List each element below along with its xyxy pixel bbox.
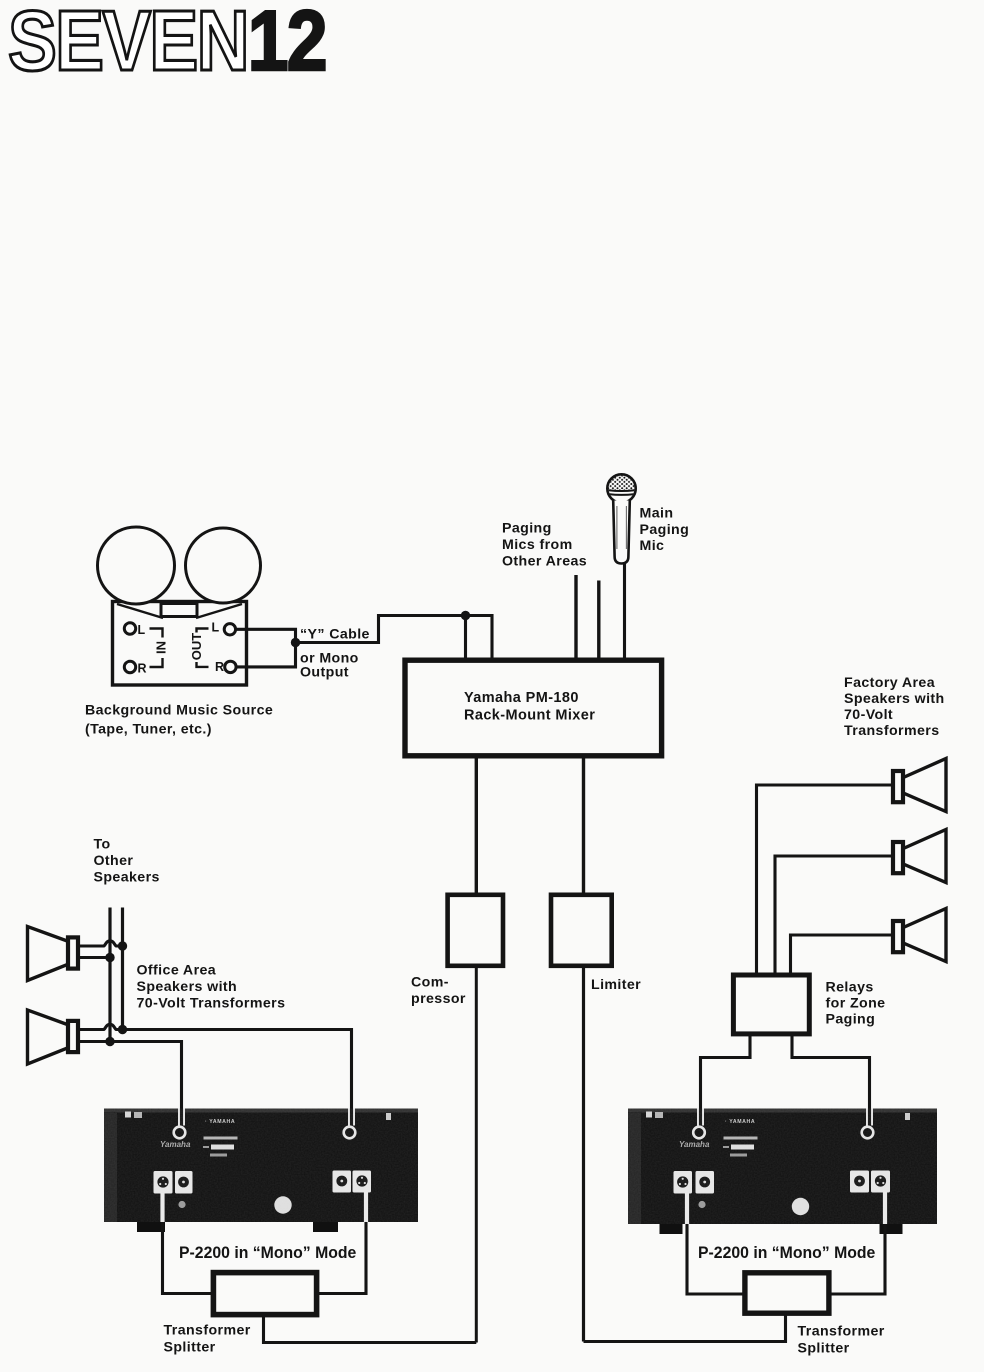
svg-text:P-2200 in “Mono” Mode: P-2200 in “Mono” Mode: [698, 1244, 875, 1263]
svg-text:Other: Other: [94, 853, 134, 869]
small jack: [698, 1201, 705, 1208]
svg-text:“Y” Cable: “Y” Cable: [300, 627, 370, 643]
svg-text:Factory Area: Factory Area: [844, 675, 935, 691]
svg-text:70-Volt Transformers: 70-Volt Transformers: [137, 996, 286, 1012]
mixer box Yamaha PM-180: [405, 660, 662, 756]
wire office2 plus to amp: [80, 1024, 352, 1110]
amp feet: [660, 1224, 683, 1234]
svg-text:Main: Main: [640, 506, 674, 522]
wire tape L out to Y junction: [235, 629, 296, 642]
horn speaker factory 3: [901, 909, 946, 962]
wire Y junction to mixer input: [296, 616, 493, 664]
svg-text:Transformer: Transformer: [798, 1324, 885, 1340]
svg-text:Paging: Paging: [826, 1012, 876, 1028]
svg-text:Splitter: Splitter: [164, 1340, 216, 1356]
wire limiter to splitter bus: [582, 964, 585, 1342]
wire splitter left to bus: [264, 1315, 477, 1343]
svg-text:L: L: [212, 621, 220, 635]
horn speaker factory 2: [901, 830, 946, 883]
input jack R: [124, 661, 135, 672]
svg-text:Splitter: Splitter: [798, 1341, 850, 1357]
tape path diagonals: [117, 604, 242, 618]
svg-text:(Tape, Tuner, etc.): (Tape, Tuner, etc.): [85, 722, 212, 738]
wire factory3 to relays: [791, 935, 894, 976]
junction mixer input: [461, 611, 470, 620]
wire splitter right to bus: [584, 1314, 786, 1342]
wire mixer to limiter: [582, 756, 585, 895]
amp panel marks: [125, 1112, 131, 1118]
wires from deck: [235, 616, 492, 667]
wire compressor to splitter bus: [475, 964, 478, 1343]
head cover: [161, 604, 197, 617]
wire office2 minus to amp: [80, 1042, 182, 1111]
svg-text:Background Music Source: Background Music Source: [85, 703, 273, 719]
input jack wires inside panel: [697, 1109, 704, 1126]
OUT bracket: [197, 629, 209, 667]
svg-text:Transformer: Transformer: [164, 1323, 251, 1339]
svg-text:for Zone: for Zone: [826, 996, 886, 1012]
input jack rings: [693, 1127, 705, 1139]
amp body: [628, 1109, 937, 1225]
transformer splitter box right: [745, 1273, 829, 1313]
output jack R: [225, 661, 236, 672]
svg-text:Transformers: Transformers: [844, 723, 939, 739]
mic head band: [605, 490, 638, 495]
amp feet: [137, 1222, 165, 1232]
svg-text:Speakers: Speakers: [94, 870, 160, 886]
XLR connectors left pair: [154, 1171, 173, 1194]
relays box: [733, 975, 809, 1034]
wire paging mics line 1: [574, 575, 577, 663]
power amplifier P-2200 left: [104, 1109, 418, 1233]
ac socket circle: [274, 1196, 291, 1213]
svg-text:Limiter: Limiter: [591, 977, 641, 993]
svg-text:Output: Output: [300, 665, 349, 681]
svg-text:R: R: [138, 662, 147, 676]
svg-text:SEVEN12: SEVEN12: [8, 0, 326, 88]
wire relays out right: [792, 1034, 870, 1110]
mic cable: [623, 562, 626, 663]
svg-text:70-Volt: 70-Volt: [844, 707, 893, 723]
junction Y cable: [291, 638, 300, 647]
compressor box: [448, 895, 503, 966]
output jack L: [224, 624, 235, 635]
wire tape R out to Y junction: [236, 643, 296, 667]
tape deck (background music source): [98, 527, 261, 685]
power amplifier P-2200 right: [628, 1109, 937, 1235]
wire amp left to splitter right unit: [687, 1224, 744, 1294]
junction office2 minus: [105, 1037, 114, 1046]
XLR connectors right pair: [850, 1171, 869, 1193]
svg-text:Relays: Relays: [826, 980, 874, 996]
svg-text:L: L: [138, 623, 146, 637]
supply reel: [98, 527, 175, 604]
svg-text:Office Area: Office Area: [137, 963, 217, 979]
mic head ball: [607, 474, 635, 502]
wire amp left to splitter: [163, 1222, 212, 1294]
amp body: [104, 1109, 418, 1223]
svg-text:pressor: pressor: [411, 991, 466, 1007]
XLR output wires inside panel: [163, 1192, 367, 1222]
wire amp right to splitter right unit: [832, 1224, 886, 1294]
svg-text:Paging: Paging: [502, 521, 552, 537]
mic grille dots: [606, 474, 637, 491]
takeup reel: [186, 528, 261, 603]
input jack rings: [174, 1127, 186, 1139]
svg-text:IN: IN: [154, 641, 169, 654]
XLR connectors right pair: [333, 1171, 352, 1193]
svg-text:Com-: Com-: [411, 975, 449, 991]
amp panel marks: [646, 1112, 652, 1118]
horn speaker factory 1: [901, 759, 946, 812]
limiter box: [551, 895, 612, 966]
input jack L: [124, 623, 135, 634]
wire office1 minus: [80, 956, 110, 959]
svg-text:Mic: Mic: [640, 538, 665, 554]
svg-text:OUT: OUT: [189, 633, 204, 661]
mic handle: [613, 501, 630, 564]
wire amp right to splitter: [319, 1222, 366, 1294]
svg-text:Yamaha PM-180: Yamaha PM-180: [464, 690, 579, 706]
svg-text:Mics from: Mics from: [502, 537, 573, 553]
microphone main paging mic: [605, 474, 638, 664]
IN bracket: [150, 629, 163, 668]
horn speaker office 1: [28, 927, 71, 981]
input jack wires inside panel: [178, 1109, 185, 1126]
transformer splitter box left: [213, 1273, 316, 1315]
ac socket circle: [792, 1198, 809, 1215]
wire relays out left: [701, 1034, 751, 1110]
wire speaker bus A: [108, 908, 111, 1042]
mic handle inner lines: [617, 506, 627, 549]
junction office1 minus: [105, 953, 114, 962]
svg-text:Speakers with: Speakers with: [137, 979, 238, 995]
small jack: [178, 1201, 185, 1208]
svg-text:P-2200 in “Mono” Mode: P-2200 in “Mono” Mode: [179, 1244, 356, 1263]
svg-text:Speakers with: Speakers with: [844, 691, 945, 707]
wire mixer to compressor: [475, 756, 478, 895]
svg-text:Rack-Mount Mixer: Rack-Mount Mixer: [464, 708, 595, 724]
wire mixer input branch: [464, 616, 467, 664]
wire speaker bus B: [121, 908, 124, 1030]
svg-text:Other Areas: Other Areas: [502, 554, 587, 570]
horn speaker office 2: [28, 1010, 71, 1064]
svg-text:To: To: [94, 837, 111, 853]
wire factory2 to relays: [775, 856, 893, 976]
svg-text:R: R: [215, 660, 224, 674]
deck body: [113, 602, 247, 686]
wire office1 plus: [80, 941, 123, 946]
wire paging mics line 2: [597, 581, 600, 664]
XLR connectors left pair: [674, 1171, 693, 1194]
wire factory1 to relays: [757, 785, 894, 976]
junction office1 plus: [118, 941, 127, 950]
svg-text:Paging: Paging: [640, 522, 690, 538]
XLR output wires inside panel: [687, 1192, 885, 1224]
junction office2 plus: [118, 1025, 127, 1034]
